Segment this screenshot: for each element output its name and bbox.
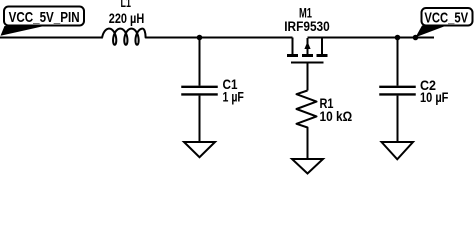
wire L1 to M1 source <box>147 37 293 39</box>
capacitor C1 <box>181 38 218 143</box>
svg-text:IRF9530: IRF9530 <box>284 19 330 34</box>
junction node C1 tap <box>197 35 203 41</box>
wire VCC_5V_PIN to L1 <box>0 37 102 39</box>
ground R1 <box>292 159 323 174</box>
resistor R1 <box>297 91 317 160</box>
ground C2 <box>382 142 414 159</box>
svg-text:10 µF: 10 µF <box>420 90 448 105</box>
junction node C2 tap <box>395 35 401 41</box>
ground C1 <box>184 142 215 157</box>
net flag VCC_5V <box>416 8 473 37</box>
net flag VCC_5V_PIN <box>1 7 85 36</box>
svg-text:VCC_5V_PIN: VCC_5V_PIN <box>9 9 80 26</box>
wire M1 drain to VCC_5V <box>308 37 435 39</box>
svg-text:L1: L1 <box>121 0 132 10</box>
inductor L1 <box>102 29 147 45</box>
capacitor C2 <box>379 38 416 143</box>
svg-text:220 µH: 220 µH <box>109 11 145 26</box>
transistor M1 <box>287 38 328 91</box>
svg-text:VCC_5V: VCC_5V <box>424 10 468 27</box>
junction node VCC_5V tap <box>413 35 419 41</box>
svg-text:10 kΩ: 10 kΩ <box>320 109 353 124</box>
svg-text:1 µF: 1 µF <box>223 90 244 105</box>
